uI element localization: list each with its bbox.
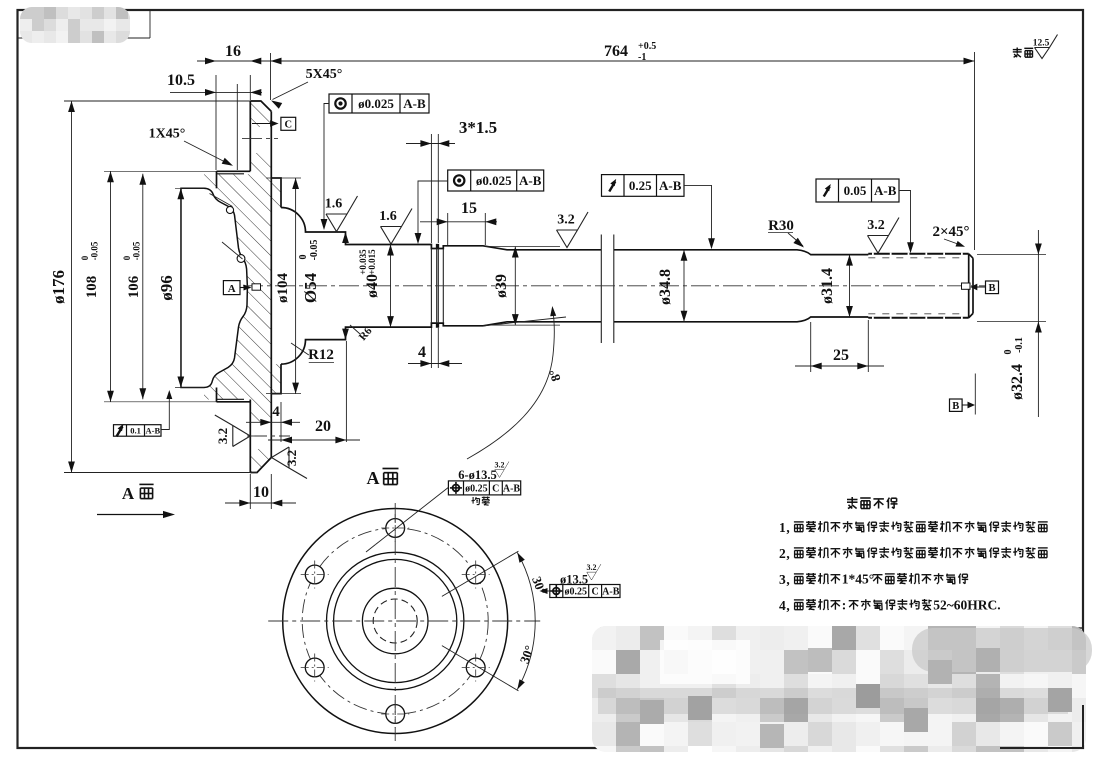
dimension ø104 [266,178,301,394]
svg-text:ø0.025: ø0.025 [476,173,512,188]
radius note R12 [291,343,334,363]
general roughness note [1013,35,1058,59]
svg-text:+0.015: +0.015 [367,249,377,275]
svg-text:A-B: A-B [519,173,542,188]
fcf concentricity ø0.025 A-B (ø54) [321,94,429,230]
svg-text:C: C [591,587,598,598]
dimension 764 [271,41,975,250]
dimension 10 [225,474,296,509]
A-view circle r33 [362,588,428,654]
roughness 3.2 disc right face [272,447,308,479]
dimension ø40 [358,245,394,328]
svg-text:1X45°: 1X45° [149,127,186,142]
dimension 3*1.5 [406,118,497,243]
A-view 30deg arc [517,553,550,690]
bolt hole axis bottom [247,435,290,437]
dimension 4 groove [408,328,462,368]
bottom watermark mosaic [592,626,1092,752]
dimension 25 [795,320,884,372]
svg-text:A-B: A-B [145,426,160,436]
radius note R30 [768,218,804,248]
svg-text:108: 108 [84,276,100,299]
svg-text:ø31.4: ø31.4 [819,268,836,304]
svg-text:2×45°: 2×45° [932,224,969,240]
A-view 30deg line upper [442,551,519,596]
svg-text:3.2: 3.2 [557,213,575,228]
svg-text:3.2: 3.2 [867,218,885,233]
A-view dashed circle r22 [373,599,417,643]
hub cavity (unsectioned region) [181,188,247,387]
thread crest lines [868,254,968,318]
dimension ø176 [49,101,257,473]
svg-text:3‚: 3‚ [779,572,790,587]
hub profile bump R2 [222,242,245,262]
svg-text:3.2: 3.2 [284,450,299,466]
callout ø13.5 position [540,563,621,598]
dimension 15 [420,200,497,245]
svg-text:764: 764 [604,43,628,60]
svg-text:1‚: 1‚ [779,520,790,535]
svg-text:+0.5: +0.5 [638,41,656,52]
svg-text:A-B: A-B [874,183,897,198]
chamfer note 5X45 [271,67,342,109]
fcf runout 0.1 A-B flange [114,390,173,436]
ø104 boss outline [271,178,281,394]
svg-text:A: A [228,283,236,295]
A-view outer circle ø176 [283,509,508,734]
thread end face [868,254,973,318]
svg-text:3.2: 3.2 [495,461,505,470]
top-left watermark mosaic [20,7,130,43]
flange disc edges [250,101,271,473]
svg-text:16: 16 [225,43,241,60]
svg-text:4‚: 4‚ [779,598,790,613]
svg-text:4: 4 [418,344,426,361]
chamfer note 1X45 [149,127,233,166]
svg-text:R30: R30 [768,218,794,234]
svg-text:A-B: A-B [403,96,426,111]
svg-text:6-ø13.5: 6-ø13.5 [458,468,497,482]
datum B lower [950,374,976,415]
svg-text:A-B: A-B [602,587,620,598]
svg-text:1.6: 1.6 [379,209,397,224]
top-left title box [18,10,151,38]
bolt hole axis top [242,138,278,140]
A-view circle r62 [334,559,457,682]
dimension ø39 [485,247,560,326]
A-view circle r69 [327,552,464,689]
flange spigot ø108/ø106 bottom [217,388,251,402]
shaft centerline [243,285,985,287]
svg-text:0.1: 0.1 [130,426,141,436]
svg-text:5X45°: 5X45° [306,67,343,82]
groove side lines [431,249,443,324]
taper angle 8 [467,306,566,459]
svg-text:20: 20 [315,418,331,435]
svg-text:ø104: ø104 [275,273,291,304]
svg-text:B: B [988,283,995,294]
dimension ø96 [157,188,204,387]
svg-text:4: 4 [272,404,280,420]
center hole mark at shaft end [962,283,971,289]
svg-text:1*45°: 1*45° [842,572,874,587]
chamfer note 2X45 [932,224,969,247]
shaft break lines [601,235,614,344]
svg-text:ø0.025: ø0.025 [358,96,394,111]
extension lines top-left [216,53,271,170]
roughness 3.2 disc left face [215,415,251,447]
roughness 1.6 on ø40 [379,209,412,245]
dimension ø34.8 [657,250,687,322]
svg-text:ø40: ø40 [364,274,381,298]
svg-text:3.2: 3.2 [587,563,597,572]
A-view centerlines [268,503,540,741]
svg-text:C: C [285,120,293,131]
datum B at shaft end [970,281,998,294]
svg-text:52~60HRC.: 52~60HRC. [933,598,1000,613]
dimension 108-0.05 [80,171,217,401]
shaft outline top [281,208,868,255]
svg-text:ø0.25: ø0.25 [465,484,488,495]
svg-text:A-B: A-B [659,178,682,193]
svg-text:ø96: ø96 [157,275,176,301]
svg-text:ø32.4: ø32.4 [1009,364,1026,400]
flange section hatching [204,101,281,473]
flange disc outline [250,101,271,473]
svg-text:ø176: ø176 [49,270,68,304]
technical requirements [779,497,1048,613]
svg-text:-0.05: -0.05 [90,241,100,260]
datum C [252,117,296,130]
svg-text:15: 15 [461,200,477,217]
svg-text:1.6: 1.6 [325,197,343,212]
dimension 4 flange [246,402,300,442]
A-view bolt circle [302,528,488,714]
dimension 10.5 [167,72,262,96]
hub profile bump R1 [210,194,234,214]
svg-text:10: 10 [253,484,269,501]
svg-text:R12: R12 [308,347,334,363]
shaft outline bottom [281,317,868,364]
svg-text:A-B: A-B [503,484,521,495]
roughness 3.2 on ø34.8 [557,212,589,248]
svg-text:Ø54: Ø54 [301,272,320,303]
svg-text:10.5: 10.5 [167,72,195,89]
svg-text:106: 106 [126,275,142,298]
svg-text:ø39: ø39 [493,274,510,298]
dimension 106-0.05 [122,174,146,399]
view title A-xiang [367,468,399,488]
dimension 16 [197,43,292,64]
roughness 1.6 on ø54 [325,196,358,232]
svg-text:3*1.5: 3*1.5 [459,118,497,137]
svg-text:ø34.8: ø34.8 [657,269,674,305]
A-view bolt holes 6x ø13.5 [301,514,490,728]
svg-text:2‚: 2‚ [779,546,790,561]
A-view 30deg line lower [442,646,519,691]
fcf concentricity ø0.025 A-B (ø40) [415,170,544,244]
svg-text:0: 0 [122,255,132,260]
svg-text:B: B [952,401,959,412]
svg-text:A: A [367,468,380,488]
svg-text::: : [842,598,847,613]
dimension ø31.4 [819,255,853,317]
svg-text:-0.1: -0.1 [1014,337,1025,353]
roughness 3.2 on thread [867,218,899,254]
svg-text:25: 25 [833,347,849,364]
svg-text:3.2: 3.2 [215,428,230,444]
svg-text:-0.05: -0.05 [309,240,320,261]
svg-text:0: 0 [298,255,309,260]
flange spigot ø108/ø106 top [217,171,251,188]
svg-text:0.25: 0.25 [629,178,652,193]
svg-text:0.05: 0.05 [844,183,867,198]
callout 6-ø13.5 position [366,461,521,553]
svg-text:-0.05: -0.05 [132,241,142,260]
fcf circular runout 0.05 A-B [816,179,914,253]
dimension ø32.4 [977,230,1046,417]
svg-text:A: A [122,484,135,503]
dimension ø54 [298,232,349,340]
svg-text:-1: -1 [638,52,646,63]
title block [601,628,1083,748]
view label A-xiang left [97,484,175,518]
svg-text:ø0.25: ø0.25 [565,587,588,598]
fcf circular runout 0.25 A-B [602,175,715,250]
dimension 20 [268,341,360,443]
svg-text:C: C [492,484,499,495]
datum A [223,281,260,295]
svg-text:0: 0 [1003,350,1014,355]
radius note R6 [350,325,375,343]
svg-text:0: 0 [80,255,90,260]
